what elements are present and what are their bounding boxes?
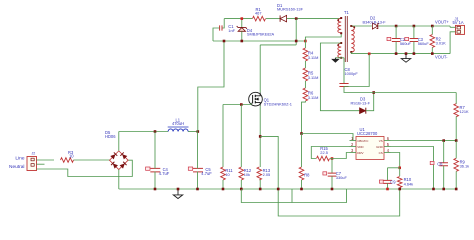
capacitor C5 [193,168,203,172]
bridge rectifier D5 [110,151,129,170]
svg-text:T1: T1 [344,10,350,15]
wire C6 bottom lead [443,166,445,189]
svg-text:22.5: 22.5 [320,150,328,155]
svg-text:4.7uF: 4.7uF [159,171,170,176]
wire ground stub [177,190,179,195]
svg-text:STD2HNK60Z-1: STD2HNK60Z-1 [264,101,292,106]
svg-text:121K: 121K [460,109,469,114]
wire bridge plus to top filter rail [118,132,120,151]
junction U1 ground rail [432,188,435,191]
wire R13 bottom [259,180,261,189]
wire CS RC top [388,167,400,169]
wire R1 to D1 segment [266,18,280,20]
junction source sense [259,135,262,138]
junction CBC tap [300,132,303,135]
svg-text:3.11M: 3.11M [308,95,319,100]
junction C1 bottom and VBULK riser [223,40,226,43]
transformer T1 core [345,16,347,62]
pin 5 stub GND [384,146,391,148]
svg-text:VS: VS [379,139,383,143]
wire R5 to R6 [304,81,306,88]
value box C5 [188,167,192,170]
wire VDD pin to R15 [311,147,349,159]
svg-text:1nF: 1nF [228,28,235,33]
svg-text:Line: Line [15,155,24,161]
diode D3 [360,108,366,114]
wire D1 to primary top [287,18,342,20]
svg-text:J2: J2 [32,152,36,156]
svg-text:5: 5 [387,142,390,147]
junction R12 ground [240,188,243,191]
pin T1 aux bottom [340,57,342,59]
junction C5 bottom [196,188,199,191]
junction VDD aux node [372,91,375,94]
pin 3 stub DRV [350,152,357,154]
wire C8 to VDD aux node [344,87,374,93]
wire gate [223,103,251,104]
svg-text:1000pF: 1000pF [345,71,359,76]
wire D4 top lead [241,19,243,28]
wire source sense return detour [260,136,400,216]
wire J2 pin stub [37,163,45,165]
wire aux top to D3 anode [320,43,359,111]
svg-text:1: 1 [351,136,354,141]
svg-text:RS1B-13-F: RS1B-13-F [351,100,371,105]
inductor L1 [168,127,189,132]
value box C7 [323,172,327,175]
ic U1 UCC28700 body [356,137,384,160]
svg-text:CBC/FC: CBC/FC [357,139,369,143]
wire C5 top lead [197,132,199,169]
wire R2 bottom lead [431,48,433,54]
value box C4 [146,167,150,170]
svg-text:HD06: HD06 [105,134,116,139]
junction R13 ground [259,188,262,191]
transformer T1 primary winding [338,19,341,33]
resistor R13 [257,167,262,180]
wire C8 top lead [343,58,345,84]
tvs diode D4 [237,26,247,31]
wire ground detour tap [291,189,293,203]
wire R12 bottom [240,180,242,189]
value box C3 [405,37,409,40]
svg-text:10: 10 [69,154,74,159]
pin 2 stub VDD [350,146,357,148]
wire VOUT+ rail [379,25,451,27]
wire R11 riser [222,105,224,168]
junction CS RC [398,167,401,170]
wire R15 to DRV pin [330,153,350,159]
junction R9 ground [455,188,458,191]
junction R2 bottom [431,52,434,55]
svg-text:5V 1A: 5V 1A [453,20,464,25]
svg-text:4.7uF: 4.7uF [201,171,212,176]
ground primary aux [332,59,339,62]
pin T1 primary bottom [340,32,342,34]
wire U1 ground return [391,147,434,190]
resistor R8 [299,167,304,180]
ground secondary [401,59,410,63]
wire R8 bottom [301,180,303,189]
svg-text:2.05: 2.05 [263,172,271,177]
junction ground stub [177,188,180,191]
junction R15 C7 [331,157,334,160]
wire VDD node to R7 [374,92,457,94]
svg-text:3.11M: 3.11M [308,55,319,60]
pin T1 aux top [340,42,342,44]
junction D4 top on rail [241,17,244,20]
wire VBULK riser staircase [198,41,224,132]
wire clamp node rail segment [224,18,252,20]
wire chain bottom to R8 CBC node [302,101,306,134]
transformer T1 aux dot [337,44,339,46]
svg-text:6: 6 [387,136,390,141]
wire Q1 source to R13 [259,106,261,167]
wire J2 pin2 Neutral to bridge AC2 [37,160,133,176]
diode D1 [280,15,287,21]
svg-text:B340LB-13-F: B340LB-13-F [363,19,387,24]
capacitor C6 [439,163,448,166]
capacitor C8 [339,84,348,87]
mosfet Q1 [249,92,263,106]
svg-text:470uH: 470uH [172,121,184,126]
wire VBULK to primary bottom pin [305,33,341,41]
wire C6 top lead [443,141,445,163]
value box C2 [387,37,391,40]
pin T1 secondary top [350,25,352,27]
svg-text:3: 3 [351,148,354,153]
svg-text:MURS160-13F: MURS160-13F [277,7,304,12]
wire secondary top to D2 [351,25,372,27]
wire primary ground rail [119,188,456,190]
wire R9 bottom lead [455,171,457,189]
junction C6 ground [442,188,445,191]
wire VBULK filter rail right [188,131,198,133]
svg-text:Neutral: Neutral [9,164,24,170]
wire R2 top lead [431,26,433,35]
junction R11 ground [222,188,225,191]
wire C9 bottom lead [387,183,389,189]
wire VS net [391,140,457,142]
junction C4 bottom [154,188,157,191]
junction C3 bottom [413,52,416,55]
capacitor C2 [392,39,401,42]
svg-text:2: 2 [351,142,354,147]
wire R11 bottom [222,180,224,189]
wire R10 top lead [399,168,401,176]
junction D4 bottom [241,40,244,43]
svg-text:3.11M: 3.11M [308,75,319,80]
junction C4 top [154,130,157,133]
junction gate R12 [240,103,243,106]
wire C8 bottom to VOUT- [344,54,369,87]
capacitor C9 [383,180,392,183]
value box C6 [430,161,434,164]
resistor R4 [303,48,308,61]
wire CS pin to RC [391,153,400,168]
wire R4 to R5 [304,61,306,68]
junction C9 ground [386,188,389,191]
junction R7 R9 [455,139,458,142]
resistor R7 [454,104,459,117]
capacitor C3 [410,39,419,42]
svg-text:R8: R8 [304,173,310,178]
svg-text:DRV: DRV [357,151,363,155]
svg-text:CS: CS [379,151,383,155]
value box C9 [379,180,383,183]
svg-text:3.01K: 3.01K [436,40,447,45]
svg-text:4.64k: 4.64k [404,181,414,186]
wire R12 riser [240,105,242,168]
junction C3 top [413,25,416,28]
svg-text:UCC28700: UCC28700 [357,131,378,136]
wire drain to transformer W2 [260,44,296,46]
transformer T1 aux winding [338,43,341,57]
wire J1 pin1 [450,26,455,28]
wire Q1 drain riser [259,45,261,93]
wire R10 bottom [399,188,401,190]
junction C8 bridge [368,53,371,56]
resistor R5 [303,68,308,81]
wire C1 left lead [213,28,219,41]
diode D2 [372,23,379,29]
svg-text:VOUT-: VOUT- [435,55,448,60]
resistor R15 [317,156,330,161]
junction R2 top [431,25,434,28]
svg-text:VOUT+: VOUT+ [435,20,449,25]
wire C7 top lead [331,159,333,174]
junction clamp return crossing [295,40,298,43]
svg-text:GND: GND [376,145,384,149]
wire bridge minus to ground rail [118,170,120,190]
wire C7 bottom lead [331,176,333,189]
resistor R6 [303,88,308,101]
transformer T1 secondary phase dot [353,26,355,28]
wire aux ground stub [334,58,336,59]
junction startup chain top [304,40,307,43]
junction R10 ground [398,188,401,191]
capacitor C7 [328,173,337,176]
junction C2 bottom [395,52,398,55]
svg-text:10k: 10k [244,172,250,177]
connector J1 [456,25,465,34]
wire clamp return vertical [295,19,297,45]
wire C3 bottom lead [413,42,415,54]
resistor R3 [61,158,74,163]
resistor R12 [239,167,244,180]
pin 6 stub VS [384,140,391,142]
wire C1 right lead [222,19,224,28]
pin T1 secondary bottom [350,51,352,53]
capacitor C1 [220,25,222,30]
junction C5 and VBULK riser [197,130,200,133]
wire clamp bottom W1 [213,40,305,42]
svg-text:4: 4 [387,148,390,153]
wire VBULK filter rail left [119,131,168,133]
wire R8 riser [301,134,303,168]
wire R3 to bridge AC1 [74,159,110,161]
wire C3 top lead [413,26,415,39]
ground primary power [173,195,182,199]
wire chain top lead [304,41,306,48]
wire R9 top lead [455,141,457,159]
junction R8 ground [300,188,303,191]
svg-text:467: 467 [255,11,262,16]
wire ground detour loop [241,189,346,203]
svg-text:C6: C6 [437,162,443,167]
svg-text:36.1k: 36.1k [460,163,470,168]
wire aux bottom to ground [335,57,344,59]
wire D4 bottom lead [241,31,243,41]
junction rail to clamp return [295,17,298,20]
wire J1 pin2 VOUT- riser [450,32,455,54]
pin 1 stub CBC [350,140,357,142]
resistor R2 [430,35,435,48]
wire VOUT+ corner [449,26,451,27]
resistor R9 [454,158,459,171]
junction C6 top [442,139,445,142]
svg-text:SMBJP6KE82A: SMBJP6KE82A [247,32,275,37]
wire secondary ground stub [405,55,407,59]
wire VOUT- rail [351,52,450,54]
wire R7 bottom to VS wire [455,117,457,141]
junction C7 ground [331,188,334,191]
transformer T1 primary dot [337,19,339,21]
wire CBC pin wire [302,134,354,141]
resistor R10 [397,177,402,188]
wire C2 top lead [395,26,397,39]
pin 4 stub CS [384,152,391,154]
wire C4 top lead [154,132,156,169]
wire R7 top lead [455,93,457,105]
wire C5 bottom lead [197,172,199,190]
wire J2 pin1 to R3 [37,159,55,161]
wire D3 cathode riser [366,93,374,111]
pin T1 primary top [340,17,342,19]
svg-text:560uF: 560uF [418,41,430,46]
svg-text:330uF: 330uF [336,175,348,180]
wire C2 bottom lead [395,42,397,54]
junction detour rail crossing [277,188,280,191]
junction C2 top [395,25,398,28]
transformer T1 secondary winding [351,26,354,52]
junction secondary ground stub [405,52,408,55]
connector J2 [27,157,37,171]
svg-text:C9: C9 [390,180,396,185]
capacitor C4 [150,168,160,172]
svg-text:VDD: VDD [357,145,364,149]
resistor R1 [253,16,266,21]
resistor R11 [221,167,226,180]
wire C4 bottom lead [154,172,156,190]
wire C9 top lead [387,168,389,181]
